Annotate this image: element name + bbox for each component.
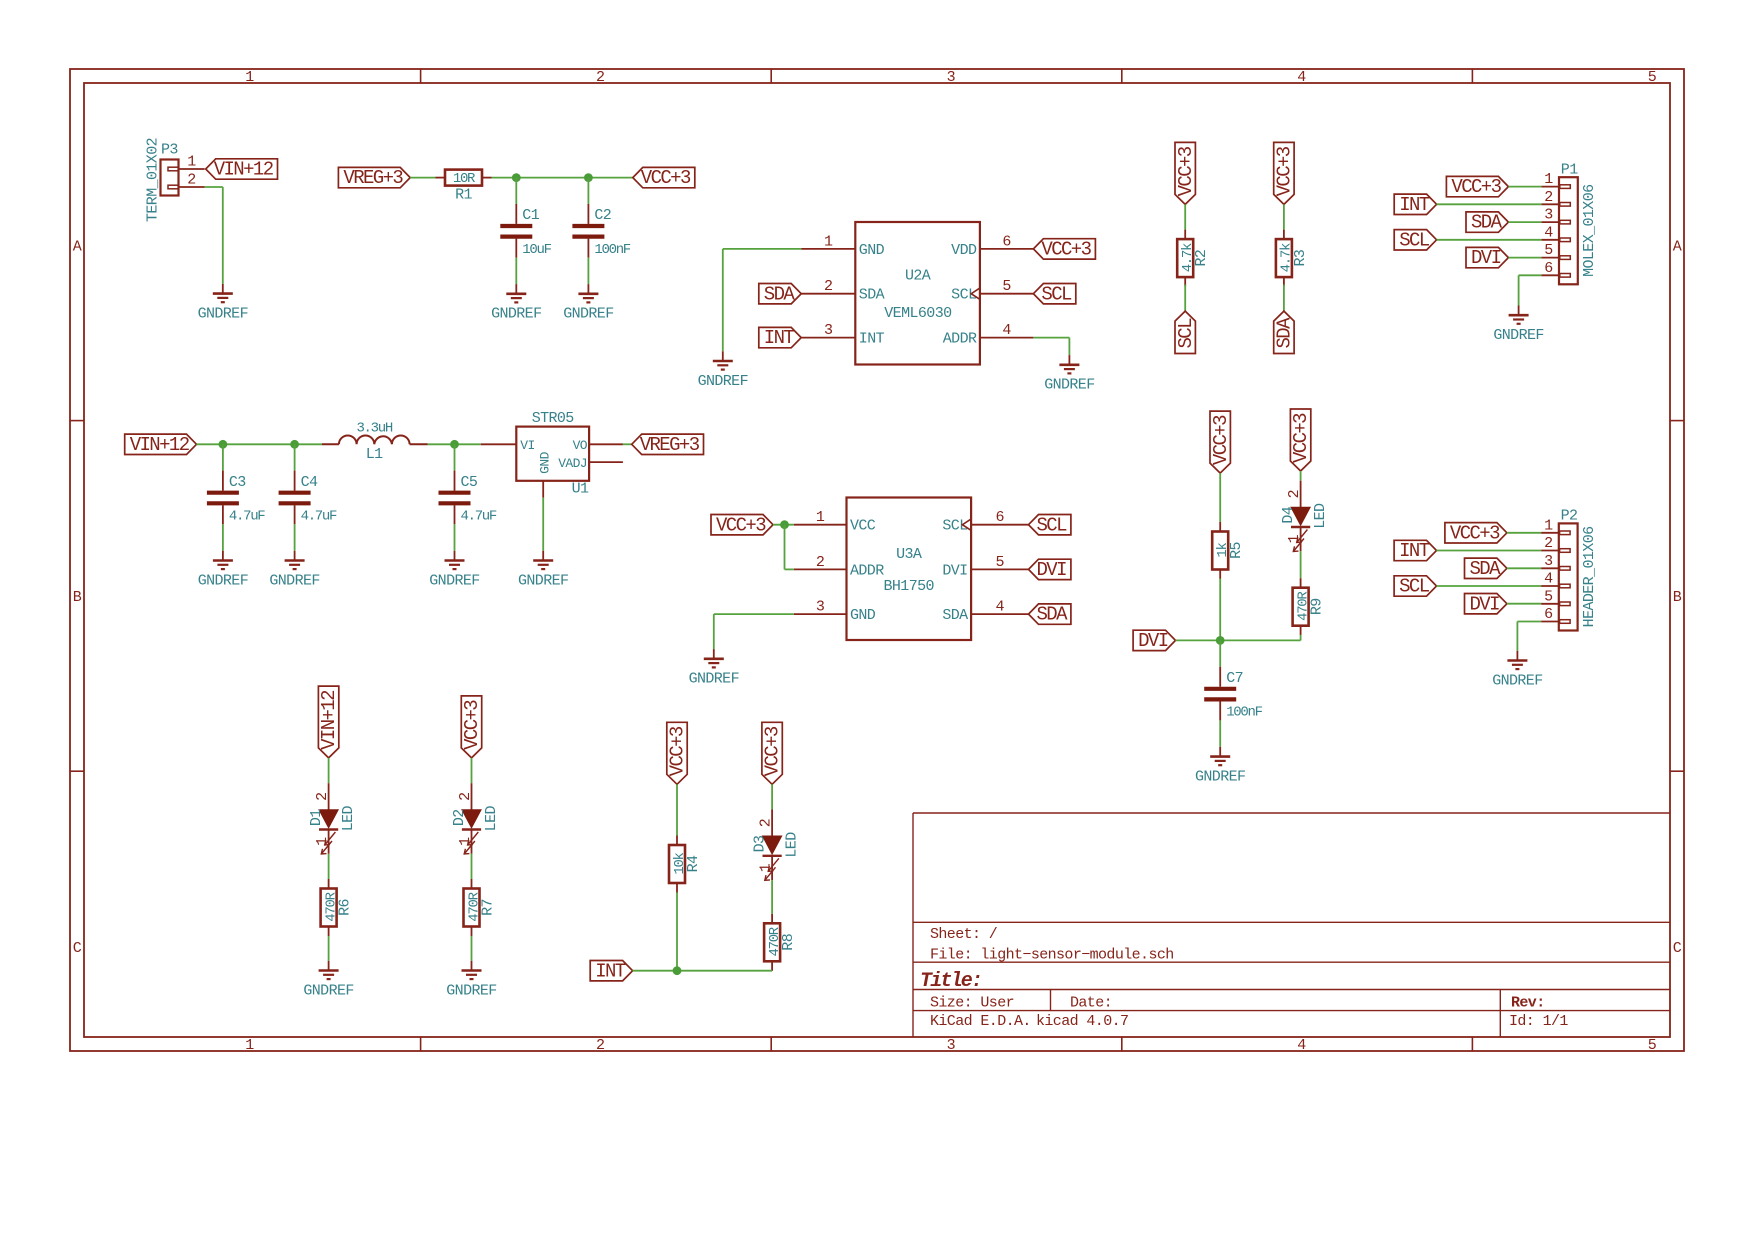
label SCL to P1.4 — [1394, 230, 1436, 250]
svg-text:4: 4 — [1002, 322, 1011, 339]
svg-text:C: C — [1673, 940, 1682, 957]
label SDA — [759, 284, 801, 304]
svg-text:SDA: SDA — [1471, 212, 1503, 234]
svg-text:VCC+3: VCC+3 — [762, 726, 784, 776]
svg-text:VREG+3: VREG+3 — [343, 167, 403, 189]
wire VO to VREG+3 — [623, 443, 632, 445]
svg-text:1: 1 — [816, 509, 825, 526]
LED D4 — [1300, 481, 1302, 508]
pin VADJ of U1 — [589, 461, 623, 463]
svg-text:GNDREF: GNDREF — [563, 306, 613, 323]
svg-text:2: 2 — [457, 792, 474, 800]
svg-text:VCC+3: VCC+3 — [1450, 522, 1500, 544]
svg-text:D4: D4 — [1280, 506, 1297, 523]
wire — [471, 936, 473, 961]
ground — [222, 551, 224, 561]
svg-text:GNDREF: GNDREF — [689, 671, 739, 688]
capacitor C3 — [222, 471, 224, 491]
svg-text:R2: R2 — [1193, 250, 1210, 267]
label INT to P1.2 — [1394, 194, 1436, 214]
pin 6 SCL of U3A (clock) — [971, 524, 1028, 526]
label VCC+3 to P2.1 — [1445, 523, 1507, 543]
ground under ADDR — [1068, 355, 1070, 365]
svg-text:3: 3 — [947, 1037, 956, 1054]
svg-text:VIN+12: VIN+12 — [130, 434, 190, 456]
svg-text:DVI: DVI — [942, 562, 967, 579]
svg-text:2: 2 — [596, 1037, 604, 1054]
svg-text:4: 4 — [1544, 224, 1553, 241]
svg-text:GNDREF: GNDREF — [1195, 768, 1245, 785]
svg-text:BH1750: BH1750 — [883, 578, 934, 595]
label SCL to P2.4 — [1394, 576, 1436, 596]
wire U2A GND to ground — [723, 248, 801, 250]
svg-text:SDA: SDA — [1469, 558, 1501, 580]
svg-text:4: 4 — [995, 599, 1004, 616]
svg-text:3: 3 — [1544, 553, 1553, 570]
sheet border frame — [70, 69, 1684, 1051]
svg-text:MOLEX_01X06: MOLEX_01X06 — [1581, 184, 1598, 277]
label VCC+3 — [711, 515, 773, 535]
svg-text:File: light−sensor−module.sch: File: light−sensor−module.sch — [930, 947, 1174, 964]
svg-text:6: 6 — [1002, 233, 1011, 250]
label SCL (vertical) — [1175, 311, 1197, 353]
svg-text:Size: User: Size: User — [930, 995, 1014, 1012]
ground under P3 — [222, 284, 224, 294]
svg-text:LED: LED — [1312, 503, 1329, 529]
inductor L1 3.3uH — [322, 443, 339, 445]
svg-text:R1: R1 — [455, 187, 472, 204]
wire — [328, 758, 330, 783]
wire to C7 — [1219, 640, 1221, 666]
wire — [471, 758, 473, 783]
svg-text:Id: 1/1: Id: 1/1 — [1509, 1013, 1568, 1030]
svg-text:5: 5 — [1544, 588, 1553, 605]
svg-text:SDA: SDA — [859, 287, 885, 304]
pin 6 VDD of U2A — [980, 248, 1034, 250]
pin 3 GND of U3A — [794, 613, 847, 615]
label VCC+3 above R5 — [1210, 411, 1232, 473]
svg-text:5: 5 — [1648, 1037, 1657, 1054]
resistor R8 470R — [771, 914, 773, 924]
wire to C1 — [515, 178, 517, 204]
svg-text:VIN+12: VIN+12 — [318, 690, 340, 750]
resistor R4 10k — [676, 836, 678, 846]
svg-text:SCL: SCL — [1399, 229, 1430, 251]
pin 2 ADDR of U3A — [794, 568, 847, 570]
svg-text:R4: R4 — [685, 855, 702, 872]
svg-text:6: 6 — [995, 509, 1004, 526]
capacitor C5 — [454, 471, 456, 491]
svg-text:GND: GND — [859, 242, 885, 259]
svg-text:GNDREF: GNDREF — [269, 572, 319, 589]
wire to C4 — [294, 444, 296, 470]
svg-text:1: 1 — [1544, 171, 1553, 188]
svg-text:4.7uF: 4.7uF — [301, 509, 337, 525]
svg-text:LED: LED — [784, 832, 801, 858]
svg-text:R9: R9 — [1309, 598, 1326, 615]
label VCC+3 above D3 — [762, 722, 784, 784]
ground — [454, 551, 456, 561]
svg-text:GNDREF: GNDREF — [518, 572, 568, 589]
pin 2 SDA of U2A — [801, 293, 855, 295]
junction — [290, 440, 299, 449]
ground under P2 — [1516, 651, 1518, 661]
svg-text:5: 5 — [1544, 242, 1553, 259]
svg-text:SCL: SCL — [1036, 514, 1067, 536]
resistor R7 470R — [471, 879, 473, 889]
label INT — [590, 961, 632, 981]
label INT — [759, 327, 801, 347]
svg-text:C: C — [73, 940, 82, 957]
label VIN+12 — [125, 434, 197, 454]
svg-text:Date:: Date: — [1070, 995, 1112, 1012]
wire VIN+12 rail — [197, 443, 323, 445]
connector P1 MOLEX_01X06 — [1559, 177, 1578, 284]
wire to C5 — [454, 444, 456, 470]
svg-text:4: 4 — [1544, 571, 1553, 588]
label VREG+3 — [632, 434, 704, 454]
svg-text:C3: C3 — [229, 474, 246, 491]
label DVI — [1133, 630, 1175, 650]
svg-text:2: 2 — [1286, 490, 1303, 498]
svg-text:VDD: VDD — [951, 242, 977, 259]
svg-text:A: A — [73, 239, 82, 256]
svg-text:SCL: SCL — [1175, 318, 1197, 349]
svg-text:VCC: VCC — [850, 518, 876, 535]
wire — [771, 784, 773, 809]
svg-text:6: 6 — [1544, 260, 1553, 277]
svg-text:3.3uH: 3.3uH — [356, 421, 392, 437]
label DVI to P1.5 — [1466, 247, 1508, 267]
ground — [294, 551, 296, 561]
svg-text:VEML6030: VEML6030 — [884, 305, 952, 322]
wire — [676, 784, 678, 835]
resistor 4.7k pullup for SDA — [1283, 230, 1285, 240]
svg-text:C1: C1 — [522, 207, 539, 224]
svg-text:SDA: SDA — [764, 283, 796, 305]
wire R5 to DVI rail — [1219, 579, 1221, 641]
svg-text:C4: C4 — [301, 474, 318, 491]
svg-text:GND: GND — [537, 451, 552, 473]
svg-text:R6: R6 — [337, 899, 354, 916]
svg-text:3: 3 — [824, 322, 833, 339]
svg-text:R3: R3 — [1292, 249, 1309, 266]
svg-text:GNDREF: GNDREF — [1492, 672, 1542, 689]
svg-text:1: 1 — [457, 837, 474, 846]
svg-text:C7: C7 — [1226, 670, 1243, 687]
svg-text:R5: R5 — [1228, 542, 1245, 559]
svg-text:P3: P3 — [161, 142, 178, 159]
svg-text:VCC+3: VCC+3 — [461, 700, 483, 750]
svg-text:INT: INT — [1399, 540, 1430, 562]
ground under U1 — [542, 551, 544, 561]
svg-text:D2: D2 — [451, 809, 468, 826]
svg-text:GNDREF: GNDREF — [698, 373, 748, 390]
svg-text:VREG+3: VREG+3 — [640, 434, 700, 456]
wire P3 pin2 to ground — [205, 186, 223, 188]
svg-text:B: B — [73, 589, 82, 606]
svg-text:VCC+3: VCC+3 — [1041, 239, 1091, 261]
svg-text:GNDREF: GNDREF — [198, 572, 248, 589]
label SDA — [1029, 604, 1071, 624]
wire to C2 — [587, 178, 589, 204]
wire L1 to U1 — [428, 443, 481, 445]
svg-text:R8: R8 — [780, 933, 797, 950]
svg-text:2: 2 — [824, 278, 832, 295]
svg-text:U2A: U2A — [905, 267, 931, 284]
label VCC+3 (vertical) — [1175, 142, 1197, 204]
svg-text:C2: C2 — [594, 207, 611, 224]
svg-text:VIN+12: VIN+12 — [214, 159, 274, 181]
svg-text:VCC+3: VCC+3 — [641, 167, 691, 189]
svg-text:100nF: 100nF — [1226, 705, 1262, 721]
wire — [454, 524, 456, 551]
pin 5 DVI of U3A — [971, 568, 1028, 570]
svg-text:GNDREF: GNDREF — [198, 305, 248, 322]
label VCC+3 — [633, 167, 695, 187]
wire U1 GND to ground — [542, 481, 544, 498]
ground — [1219, 747, 1221, 757]
junction — [219, 440, 228, 449]
svg-text:1: 1 — [1286, 534, 1303, 543]
wire to ADDR — [784, 525, 786, 570]
pin 5 SCL of U2A (clock) — [980, 293, 1034, 295]
svg-text:STR05: STR05 — [532, 410, 575, 427]
wire U3A GND to ground — [714, 613, 794, 615]
svg-text:VCC+3: VCC+3 — [1175, 146, 1197, 196]
svg-text:100nF: 100nF — [594, 242, 630, 258]
wire — [222, 524, 224, 551]
svg-text:U1: U1 — [572, 480, 589, 497]
pin 3 INT of U2A — [801, 337, 855, 339]
svg-text:1: 1 — [187, 154, 196, 171]
svg-text:VCC+3: VCC+3 — [1451, 176, 1501, 198]
wire — [1283, 285, 1285, 312]
wire D4 to R9 — [1300, 551, 1302, 578]
junction — [673, 966, 682, 975]
svg-text:2: 2 — [596, 69, 604, 86]
junction — [450, 440, 459, 449]
LED D1 — [328, 783, 330, 810]
ground — [587, 284, 589, 294]
svg-text:SDA: SDA — [1036, 604, 1068, 626]
wire — [1184, 204, 1186, 229]
label VREG+3 — [338, 167, 410, 187]
INT rail wire — [633, 970, 773, 972]
svg-text:HEADER_01X06: HEADER_01X06 — [1581, 526, 1598, 627]
label VIN+12 — [206, 159, 278, 179]
wire — [328, 854, 330, 879]
svg-text:LED: LED — [340, 806, 357, 832]
svg-text:DVI: DVI — [1036, 559, 1066, 581]
svg-text:2: 2 — [758, 819, 775, 827]
svg-text:4.7uF: 4.7uF — [229, 509, 265, 525]
label VCC+3 to P1.1 — [1446, 176, 1508, 196]
junction — [780, 520, 789, 529]
resistor 4.7k pullup for SCL — [1184, 230, 1186, 240]
svg-text:VCC+3: VCC+3 — [667, 726, 689, 776]
label INT to P2.2 — [1394, 540, 1436, 560]
svg-text:3: 3 — [947, 69, 956, 86]
ground left of U2A — [722, 351, 724, 361]
svg-text:L1: L1 — [366, 446, 383, 463]
svg-text:DVI: DVI — [1469, 593, 1499, 615]
title block — [912, 813, 914, 1037]
ground under U3A — [713, 649, 715, 659]
svg-text:C5: C5 — [461, 474, 478, 491]
ground — [515, 284, 517, 294]
pin 1 GND of U2A — [801, 248, 855, 250]
svg-text:GNDREF: GNDREF — [1044, 377, 1094, 394]
pin 2 of P3 — [179, 186, 205, 188]
label VCC+3 above R4 — [667, 722, 689, 784]
svg-text:2: 2 — [314, 792, 331, 800]
svg-text:1: 1 — [245, 1037, 254, 1054]
svg-text:KiCad E.D.A.: KiCad E.D.A. — [930, 1013, 1031, 1030]
resistor R1 10R — [436, 177, 446, 179]
pin 1 of P3 — [179, 168, 205, 170]
wire to C3 — [222, 444, 224, 470]
label VCC+3 above D4 — [1290, 409, 1312, 471]
svg-text:2: 2 — [816, 554, 824, 571]
svg-text:TERM_01X02: TERM_01X02 — [144, 138, 161, 222]
pin VI of U1 — [481, 443, 517, 445]
svg-text:Sheet: /: Sheet: / — [930, 926, 998, 943]
svg-text:5: 5 — [1002, 278, 1011, 295]
svg-text:VCC+3: VCC+3 — [1290, 413, 1312, 463]
svg-text:1: 1 — [1544, 517, 1553, 534]
svg-text:INT: INT — [595, 960, 626, 982]
svg-text:VCC+3: VCC+3 — [716, 514, 766, 536]
wire VCC+3 to U3A — [773, 524, 794, 526]
svg-text:5: 5 — [995, 554, 1004, 571]
svg-text:D1: D1 — [308, 809, 325, 826]
junction — [512, 173, 521, 182]
wire — [1219, 720, 1221, 747]
label VCC+3 — [1033, 239, 1095, 259]
ground — [471, 961, 473, 971]
label SDA (vertical) — [1274, 311, 1296, 353]
DVI rail wire — [1176, 639, 1301, 641]
svg-text:VO: VO — [573, 438, 588, 453]
pin 4 ADDR of U2A — [980, 337, 1034, 339]
svg-text:2: 2 — [1544, 535, 1552, 552]
svg-text:VCC+3: VCC+3 — [1210, 415, 1232, 465]
wire — [1300, 471, 1302, 481]
svg-text:A: A — [1673, 239, 1682, 256]
svg-text:Title:: Title: — [920, 970, 981, 993]
svg-text:kicad 4.0.7: kicad 4.0.7 — [1036, 1013, 1128, 1030]
svg-text:10uF: 10uF — [522, 242, 551, 258]
svg-text:R7: R7 — [479, 899, 496, 916]
IC U3A BH1750 — [847, 498, 972, 641]
svg-text:1: 1 — [758, 863, 775, 872]
svg-text:3: 3 — [816, 599, 825, 616]
svg-text:GNDREF: GNDREF — [491, 306, 541, 323]
svg-text:DVI: DVI — [1138, 630, 1168, 652]
svg-text:P2: P2 — [1561, 508, 1578, 525]
label SCL — [1029, 515, 1071, 535]
label SCL — [1033, 284, 1075, 304]
svg-text:VCC+3: VCC+3 — [1274, 146, 1296, 196]
label VIN+12 (vertical) — [318, 686, 340, 758]
svg-text:VADJ: VADJ — [558, 456, 587, 471]
wire — [471, 854, 473, 879]
svg-text:SDA: SDA — [1274, 317, 1296, 349]
junction — [584, 173, 593, 182]
svg-text:2: 2 — [187, 172, 195, 189]
pin 4 SDA of U3A — [971, 613, 1028, 615]
svg-text:INT: INT — [764, 327, 795, 349]
svg-text:GNDREF: GNDREF — [429, 572, 479, 589]
label VCC+3 (vertical) — [461, 696, 483, 758]
svg-text:ADDR: ADDR — [943, 331, 977, 348]
svg-text:ADDR: ADDR — [850, 562, 884, 579]
pin 1 VCC of U3A — [794, 524, 847, 526]
label VCC+3 (vertical) — [1274, 142, 1296, 204]
resistor R5 1k — [1219, 522, 1221, 532]
connector P2 HEADER_01X06 — [1559, 523, 1578, 630]
LED D2 — [471, 783, 473, 810]
wire — [294, 524, 296, 551]
resistor R9 470R — [1300, 578, 1302, 588]
svg-text:6: 6 — [1544, 606, 1553, 623]
capacitor C7 — [1219, 667, 1221, 687]
svg-text:4: 4 — [1297, 69, 1306, 86]
wire R9 to DVI rail — [1300, 635, 1302, 641]
svg-text:5: 5 — [1648, 69, 1657, 86]
svg-text:INT: INT — [1399, 194, 1430, 216]
svg-text:GND: GND — [850, 607, 876, 624]
wire D3 to R8 — [771, 880, 773, 914]
wire R4 to INT rail — [676, 893, 678, 971]
svg-text:GNDREF: GNDREF — [303, 982, 353, 999]
wire P1.6 to ground — [1519, 274, 1542, 276]
label DVI to P2.5 — [1465, 594, 1507, 614]
svg-text:3: 3 — [1544, 207, 1553, 224]
resistor R6 470R — [328, 879, 330, 889]
label DVI — [1029, 559, 1071, 579]
svg-text:1: 1 — [245, 69, 254, 86]
svg-text:4: 4 — [1297, 1037, 1306, 1054]
svg-text:DVI: DVI — [1471, 247, 1501, 269]
capacitor C2 — [587, 204, 589, 224]
svg-text:SCL: SCL — [1399, 576, 1430, 598]
svg-text:D3: D3 — [752, 835, 769, 852]
ground — [328, 961, 330, 971]
svg-text:P1: P1 — [1561, 162, 1578, 179]
svg-text:1: 1 — [314, 837, 331, 846]
svg-text:1: 1 — [824, 233, 833, 250]
label SDA to P2.3 — [1465, 558, 1507, 578]
wire VREG+3 to R1 — [410, 177, 435, 179]
IC U2A VEML6030 — [855, 222, 980, 365]
connector P3 TERM_01X02 — [161, 160, 179, 196]
wire — [1283, 204, 1285, 229]
wire U2A ADDR to ground — [1033, 337, 1069, 339]
regulator U1 STR05 — [516, 427, 589, 481]
LED D3 — [771, 810, 773, 837]
capacitor C1 — [515, 204, 517, 224]
wire — [587, 258, 589, 285]
svg-text:2: 2 — [1544, 189, 1552, 206]
svg-text:INT: INT — [859, 331, 885, 348]
ground under P1 — [1518, 306, 1520, 316]
svg-text:LED: LED — [483, 806, 500, 832]
capacitor C4 — [294, 471, 296, 491]
svg-text:SDA: SDA — [942, 607, 968, 624]
wire — [1184, 285, 1186, 312]
